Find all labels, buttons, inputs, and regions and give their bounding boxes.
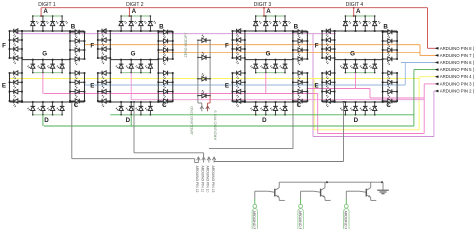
junction digit3 common <box>292 101 294 103</box>
wire digit3 segment A anode rail <box>256 15 285 17</box>
connector arrow ARDUINO PIN 6 <box>435 61 439 64</box>
wire digit4 segment G top rail <box>335 59 383 61</box>
svg-text:E: E <box>225 83 229 90</box>
wire digit4 top rail <box>322 30 397 32</box>
junction digit1 bottom rail <box>42 101 44 103</box>
wire net-F purple lower bus <box>313 136 434 138</box>
wire digit4 bottom rail <box>322 101 397 103</box>
LED digit2 segment E #1 <box>98 72 102 74</box>
junction digit2 top rail <box>130 30 132 32</box>
LED digit4 segment B #1 <box>383 31 388 33</box>
junction digit1 A rail red <box>40 15 42 17</box>
svg-text:ARDUINO PIN 4 (: ARDUINO PIN 4 ( <box>440 74 474 79</box>
wire net-G pink drop <box>317 94 319 134</box>
junction digit1 G rail 1 <box>32 59 34 61</box>
node transistor Q1 base pin <box>253 204 257 208</box>
svg-text:ARDUINO PIN 13: ARDUINO PIN 13 <box>211 166 215 193</box>
junction digit1 B rung 3 <box>69 49 71 51</box>
LED digit4 segment D #3 <box>364 102 366 106</box>
LED digit3 segment E #1 <box>232 72 236 74</box>
LED digit1 segment D #1 <box>32 102 34 106</box>
junction digit3 G rail 1 <box>255 59 257 61</box>
wire digit3 top rail <box>232 30 307 32</box>
LED digit4 segment C #1 <box>383 72 388 74</box>
junction digit3 E rung 1 <box>232 72 234 74</box>
svg-text:G: G <box>266 51 271 58</box>
junction digit1 B rung 4 <box>69 58 71 60</box>
junction digit1 C rung 3 <box>69 91 71 93</box>
svg-text:F: F <box>90 43 94 50</box>
LED digit1 segment B #2 <box>70 40 75 42</box>
LED digit3 segment B #4 <box>293 58 298 60</box>
LED digit3 segment A #3 <box>275 16 277 22</box>
junction digit2 top rail <box>120 30 122 32</box>
svg-text:D: D <box>262 117 267 124</box>
junction digit2 F rung 4 <box>97 57 99 59</box>
wire digit1 common drop <box>71 102 73 159</box>
LED digit3 segment G #1 <box>255 60 257 65</box>
LED digit1 segment C #2 <box>70 81 75 83</box>
LED digit4 segment F #3 <box>322 48 326 50</box>
junction digit2 E rung 1 <box>97 72 99 74</box>
LED digit2 segment B #2 <box>158 40 163 42</box>
wire net-F purple riser <box>433 91 435 137</box>
junction digit3 bottom rail right <box>292 101 294 103</box>
wire digit1 right inner rail <box>69 31 71 102</box>
LED digit1 segment F #1 <box>10 30 14 32</box>
wire digit2 left inner rail <box>109 31 111 102</box>
LED digit2 segment A #4 <box>149 16 151 22</box>
wire net-D green bus lower <box>44 125 414 127</box>
wire digit1 top rail <box>10 30 85 32</box>
LED digit1 segment C #1 <box>70 72 75 74</box>
LED digit4 segment A #3 <box>364 16 366 22</box>
junction digit1 A rail 1 <box>32 15 33 16</box>
wire digit1 segment C right rail <box>84 73 86 101</box>
junction digit2 top rail left <box>109 30 111 32</box>
junction digit4 F rung 4 <box>321 57 323 59</box>
junction digit3 bottom rail <box>265 101 267 103</box>
junction digit1 C rung 2 <box>69 81 71 83</box>
junction digit1 F rung 4 <box>9 57 11 59</box>
wire digit2 D output green <box>130 115 132 126</box>
junction digit4 D cathode rail <box>365 114 366 115</box>
junction digit1 G rail 2 <box>42 59 44 61</box>
wire digit3 segment F left rail <box>231 31 233 58</box>
junction digit4 F rung 1 <box>321 30 323 32</box>
LED digit3 segment F #4 <box>232 57 236 59</box>
junction digit1 F rung 3 <box>9 48 11 50</box>
junction digit1 top rail left <box>21 30 23 32</box>
junction zero-modify rung 4 <box>197 95 198 96</box>
LED digit3 segment A #4 <box>284 16 286 22</box>
LED digit2 segment G #4 <box>149 60 151 65</box>
wire digit1 D output green <box>42 115 44 126</box>
svg-text:ZERO MODIFY: ZERO MODIFY <box>184 32 188 58</box>
svg-text:E: E <box>2 83 6 90</box>
svg-text:ARDUINO PIN 11: ARDUINO PIN 11 <box>344 211 348 230</box>
svg-text:DIGIT 4: DIGIT 4 <box>346 2 364 8</box>
LED digit3 segment F #1 <box>232 30 236 32</box>
LED digit1 segment A #2 <box>42 16 44 22</box>
svg-text:G: G <box>131 51 136 58</box>
junction digit1 G cathode rail <box>32 72 33 73</box>
svg-text:D: D <box>44 117 49 124</box>
junction digit2 B rung 3 <box>157 49 159 51</box>
LED digit4 segment E #4 <box>322 100 326 102</box>
wire net-E yellow riser <box>418 77 420 130</box>
junction digit4 top rail right <box>382 30 384 32</box>
junction digit1 A rail 3 <box>52 15 53 16</box>
LED digit1 segment C #3 <box>70 91 75 93</box>
wire digit1 segment F left rail <box>9 31 11 58</box>
svg-text:ARDUINO GND: ARDUINO GND <box>189 106 194 135</box>
connector arrow digit1 common <box>197 157 201 160</box>
LED zero-modify #2 <box>198 56 202 58</box>
junction digit2 G rail 2 <box>130 59 132 61</box>
node transistor Q3 base pin <box>344 204 348 208</box>
junction digit1 bottom rail left <box>21 101 23 103</box>
junction digit4 G cathode rail <box>355 72 356 73</box>
wire stub pin6 <box>436 62 439 64</box>
wire net-G pink bus 2 <box>131 99 424 101</box>
junction digit2 D cathode rail <box>120 114 121 115</box>
LED digit4 segment C #3 <box>383 91 388 93</box>
junction digit3 B rung 2 <box>292 40 294 42</box>
junction zero-modify rung 2 <box>197 57 198 58</box>
wire digit1 segment G cathode rail <box>33 72 62 74</box>
LED digit1 segment A #3 <box>52 16 54 22</box>
svg-text:D: D <box>354 117 359 124</box>
LED digit4 segment G #1 <box>344 60 346 65</box>
junction digit1 D cathode rail <box>52 114 53 115</box>
LED digit4 segment F #1 <box>322 30 326 32</box>
wire transistor Q2 base green lead <box>300 199 302 205</box>
LED digit3 segment E #2 <box>232 81 236 83</box>
junction digit3 G cathode rail <box>284 72 285 73</box>
junction red bus digit3 <box>263 7 265 9</box>
LED digit1 segment A #1 <box>32 16 34 22</box>
LED digit2 segment F #1 <box>98 30 102 32</box>
svg-text:G: G <box>42 51 47 58</box>
junction digit4 D cathode rail <box>355 114 356 115</box>
wire net-A red to pin8 <box>428 47 437 49</box>
wire digit3 common horizontal <box>209 148 293 150</box>
LED digit3 segment E #4 <box>232 100 236 102</box>
LED digit3 segment B #3 <box>293 49 298 51</box>
wire net-F purple to pin2 <box>434 90 436 92</box>
junction digit1 F rung 1 <box>9 30 11 32</box>
junction digit1 top rail <box>32 30 34 32</box>
wire digit2 segment D cathode rail <box>121 114 150 116</box>
LED digit3 segment D #2 <box>265 102 267 106</box>
LED digit4 segment G #3 <box>364 60 366 65</box>
junction digit2 G rail 3 <box>140 59 142 61</box>
wire digit4 segment D cathode rail <box>345 114 374 116</box>
svg-text:ARDUINO PIN 8 (: ARDUINO PIN 8 ( <box>440 46 474 51</box>
wire stub pin4 <box>436 76 439 78</box>
junction digit1 D cathode rail <box>32 114 33 115</box>
junction digit4 E rung 3 <box>321 91 323 93</box>
wire digit3 segment D cathode rail <box>256 114 285 116</box>
LED digit3 segment B #1 <box>293 31 298 33</box>
connector arrow ARDUINO PIN 3 <box>435 83 439 86</box>
junction digit3 top rail right <box>292 30 294 32</box>
junction digit2 bottom rail <box>130 101 132 103</box>
wire net-G pink lower bus <box>318 133 425 135</box>
LED digit3 segment C #4 <box>293 100 298 102</box>
transistor Q2 collector <box>321 188 325 191</box>
wire digit2 right inner rail <box>157 31 159 102</box>
LED digit1 segment E #4 <box>10 100 14 102</box>
label transistor Q2 arduino pin box <box>298 209 303 233</box>
LED digit4 segment A #2 <box>355 16 357 22</box>
svg-text:A: A <box>266 8 271 15</box>
junction digit3 E rung 3 <box>232 91 234 93</box>
connector arrow ARDUINO PIN 7 <box>435 54 439 57</box>
LED digit4 segment D #1 <box>344 102 346 106</box>
LED digit2 segment G #1 <box>120 60 122 65</box>
wire transistor collector rail <box>279 181 383 183</box>
wire net-E yellow drop <box>313 79 315 130</box>
junction digit3 bottom rail <box>284 101 286 103</box>
wire digit4 segment E left rail <box>321 73 323 101</box>
wire digit2 net A red stub <box>128 8 130 16</box>
LED digit2 segment A #2 <box>130 16 132 22</box>
wire net-A red bus <box>41 7 427 9</box>
junction digit2 E rung 2 <box>97 81 99 83</box>
junction digit3 E rung 2 <box>232 81 234 83</box>
wire digit2 G output pink <box>130 73 132 100</box>
wire transistor Q3 base green lead <box>345 199 347 205</box>
LED digit3 segment D #1 <box>255 102 257 106</box>
wire digit2 bottom rail <box>98 101 173 103</box>
LED digit2 segment A #1 <box>120 16 122 22</box>
junction digit1 G cathode rail <box>52 72 53 73</box>
svg-text:A: A <box>132 8 137 15</box>
junction digit2 E rung 4 <box>97 100 99 102</box>
wire digit3 segment G top rail <box>245 59 293 61</box>
junction digit4 bottom rail right <box>382 101 384 103</box>
LED digit2 segment E #3 <box>98 91 102 93</box>
junction digit3 A rail 3 <box>275 15 276 16</box>
transistor Q3 body <box>365 189 367 197</box>
LED digit4 segment F #2 <box>322 39 326 41</box>
wire digit3 common drop <box>292 102 294 149</box>
label transistor Q3 arduino pin box <box>344 209 349 233</box>
junction digit3 F rung 3 <box>232 48 234 50</box>
LED digit2 segment B #4 <box>158 58 163 60</box>
junction digit3 A rail 2 <box>265 15 266 16</box>
LED digit4 segment E #3 <box>322 91 326 93</box>
transistor Q1 body <box>274 189 276 197</box>
wire digit3 segment E left rail <box>231 73 233 101</box>
svg-text:ARDUINO PIN 11: ARDUINO PIN 11 <box>200 166 204 193</box>
LED digit1 segment B #1 <box>70 31 75 33</box>
junction digit4 B rung 1 <box>382 31 384 33</box>
wire digit1 common horizontal <box>72 158 195 160</box>
LED digit3 segment D #4 <box>284 102 286 106</box>
connector arrow digit3 common <box>207 157 211 160</box>
wire stub pin3 <box>436 83 439 85</box>
junction digit3 G cathode rail <box>265 72 266 73</box>
wire digit2 segment G cathode rail <box>121 72 150 74</box>
LED digit1 segment G #1 <box>32 60 34 65</box>
svg-text:ARDUINO PIN 5 (: ARDUINO PIN 5 ( <box>440 67 474 72</box>
junction digit2 bottom rail right <box>157 101 159 103</box>
wire net-D green riser <box>413 70 415 126</box>
transistor Q2 base wire <box>300 191 302 198</box>
junction digit4 G rail 4 <box>374 59 376 61</box>
junction digit1 D cathode rail <box>61 114 62 115</box>
LED digit2 segment C #1 <box>158 72 163 74</box>
LED digit4 segment B #4 <box>383 58 388 60</box>
junction digit1 A rail 4 <box>61 15 62 16</box>
wire net-D green bus upper <box>110 114 414 116</box>
junction digit2 A rail 3 <box>140 15 141 16</box>
junction digit2 F rung 2 <box>97 39 99 41</box>
LED digit4 segment C #4 <box>383 100 388 102</box>
wire digit3 segment C right rail <box>306 73 308 101</box>
junction digit2 G cathode rail <box>150 72 151 73</box>
junction digit2 A rail 4 <box>150 15 151 16</box>
wire net-E yellow to pin4 <box>419 76 436 78</box>
junction digit4 E rung 4 <box>321 100 323 102</box>
wire digit2 segment A anode rail <box>121 15 150 17</box>
svg-text:ARDUINO PIN 12: ARDUINO PIN 12 <box>195 166 199 193</box>
LED digit2 segment C #4 <box>158 100 163 102</box>
wire net-B orange to pin7 <box>420 54 436 56</box>
wire digit2 segment E left rail <box>97 73 99 101</box>
junction digit1 E rung 3 <box>9 91 11 93</box>
LED digit2 segment D #1 <box>120 102 122 106</box>
LED digit4 segment D #4 <box>374 102 376 106</box>
wire digit4 right inner rail <box>382 31 384 102</box>
svg-text:ARDUINO PIN 13: ARDUINO PIN 13 <box>252 211 256 230</box>
junction digit4 D cathode rail <box>345 114 346 115</box>
junction red bus digit4 <box>353 7 355 9</box>
junction digit2 G rail 1 <box>120 59 122 61</box>
junction digit4 bottom rail left <box>334 101 336 103</box>
transistor Q3 emitter <box>366 195 370 198</box>
junction digit3 bottom rail <box>275 101 277 103</box>
wire digit1 segment G top rail <box>22 59 70 61</box>
junction digit1 C rung 4 <box>69 100 71 102</box>
junction zero-modify rung 3 <box>197 78 198 79</box>
junction digit4 G rail 3 <box>364 59 366 61</box>
LED digit3 segment F #3 <box>232 48 236 50</box>
wire digit1 G output pink <box>42 73 44 94</box>
connector arrow ARDUINO PIN 5 <box>435 68 439 71</box>
junction digit3 D cathode rail <box>284 114 285 115</box>
connector arrow zero-modify gnd <box>200 106 204 109</box>
junction digit3 G cathode rail <box>255 72 256 73</box>
wire net-E yellow bus <box>10 78 420 80</box>
wire net-E yellow lower bus <box>314 129 419 131</box>
wire net-C blue riser <box>404 63 406 86</box>
junction digit3 C rung 2 <box>292 81 294 83</box>
svg-text:E: E <box>90 83 94 90</box>
junction digit4 top rail <box>355 30 357 32</box>
LED zero-modify #3 <box>198 78 202 80</box>
LED digit4 segment G #2 <box>355 60 357 65</box>
wire digit2 segment C right rail <box>172 73 174 101</box>
wire net-G pink riser <box>423 84 425 134</box>
svg-text:G: G <box>350 51 355 58</box>
junction digit1 bottom rail right <box>69 101 71 103</box>
wire net-G pink bus <box>44 93 318 95</box>
junction digit1 top rail <box>61 30 63 32</box>
LED digit2 segment E #2 <box>98 81 102 83</box>
transistor Q2 emitter <box>321 195 325 198</box>
LED digit1 segment A #4 <box>61 16 63 22</box>
junction digit2 D cathode rail <box>150 114 151 115</box>
junction digit2 G cathode rail <box>120 72 121 73</box>
junction digit3 G rail 3 <box>275 59 277 61</box>
svg-text:ARDUINO PIN 3 (: ARDUINO PIN 3 ( <box>440 81 474 86</box>
wire zero-modify left rail <box>197 40 199 103</box>
junction digit3 F rung 2 <box>232 39 234 41</box>
junction digit2 bottom rail <box>150 101 152 103</box>
LED digit1 segment D #2 <box>42 102 44 106</box>
junction digit3 B rung 4 <box>292 58 294 60</box>
wire digit4 segment G cathode rail <box>345 72 374 74</box>
wire digit2 top rail <box>98 30 173 32</box>
LED digit1 segment G #4 <box>61 60 63 65</box>
svg-text:ARDUINO PIN 2 (: ARDUINO PIN 2 ( <box>440 89 474 94</box>
junction digit4 C rung 3 <box>382 91 384 93</box>
junction digit1 G cathode rail <box>42 72 43 73</box>
wire net-B orange bus <box>85 44 421 46</box>
junction digit4 bottom rail <box>364 101 366 103</box>
LED digit3 segment B #2 <box>293 40 298 42</box>
LED digit2 segment C #2 <box>158 81 163 83</box>
LED digit2 segment G #2 <box>130 60 132 65</box>
junction collector rail 2 <box>381 181 383 183</box>
junction digit2 top rail <box>150 30 152 32</box>
junction digit2 D cathode rail <box>140 114 141 115</box>
junction digit4 B rung 4 <box>382 58 384 60</box>
junction digit2 bottom rail left <box>109 101 111 103</box>
junction digit2 E rung 3 <box>97 91 99 93</box>
junction digit2 C rung 4 <box>157 100 159 102</box>
junction digit4 C rung 2 <box>382 81 384 83</box>
LED digit2 segment D #2 <box>130 102 132 106</box>
junction digit4 G cathode rail <box>345 72 346 73</box>
LED digit2 segment G #3 <box>140 60 142 65</box>
junction digit2 C rung 1 <box>157 72 159 74</box>
junction digit1 bottom rail <box>52 101 54 103</box>
junction digit4 G cathode rail <box>374 72 375 73</box>
junction digit2 B rung 1 <box>157 31 159 33</box>
junction digit3 top rail <box>255 30 257 32</box>
junction digit1 E rung 4 <box>9 100 11 102</box>
wire digit1 segment D cathode rail <box>33 114 62 116</box>
svg-text:ARDUINO PIN 12: ARDUINO PIN 12 <box>298 211 302 230</box>
junction digit1 B rung 2 <box>69 40 71 42</box>
wire net-F purple bus <box>16 33 336 35</box>
connector arrow ARDUINO PIN 2 <box>435 90 439 93</box>
junction digit2 B rung 2 <box>157 40 159 42</box>
wire stub pin7 <box>436 54 439 56</box>
LED digit2 segment E #4 <box>98 100 102 102</box>
junction digit3 A rail red <box>263 15 265 17</box>
junction digit1 A rail 2 <box>42 15 43 16</box>
wire digit1 segment A anode rail <box>33 15 62 17</box>
wire net-F purple drop <box>312 34 314 137</box>
LED digit4 segment E #2 <box>322 81 326 83</box>
wire digit1 bottom rail <box>10 101 85 103</box>
